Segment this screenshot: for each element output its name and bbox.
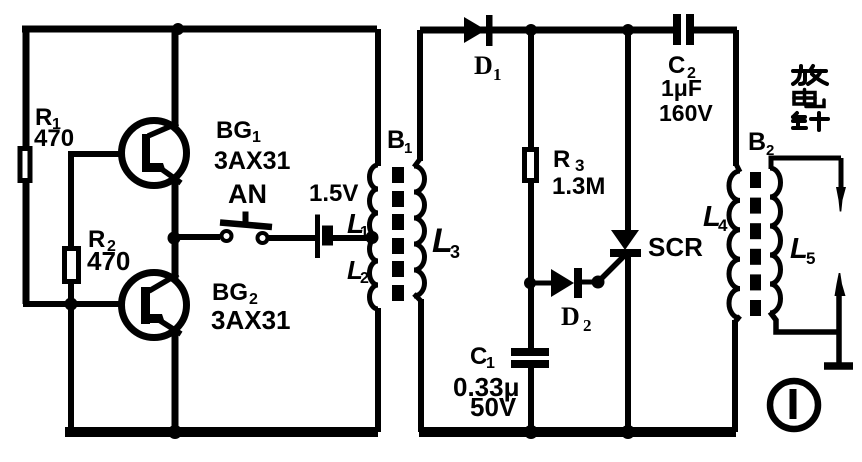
- svg-text:3AX31: 3AX31: [211, 305, 291, 335]
- svg-text:B: B: [387, 126, 405, 154]
- svg-text:D: D: [561, 302, 580, 331]
- svg-text:2: 2: [583, 316, 592, 335]
- svg-text:1: 1: [493, 65, 502, 84]
- svg-text:B: B: [748, 128, 766, 156]
- svg-text:2: 2: [766, 142, 774, 159]
- svg-text:1.3M: 1.3M: [552, 173, 605, 200]
- svg-text:3: 3: [450, 242, 460, 262]
- svg-text:SCR: SCR: [648, 232, 703, 262]
- svg-text:1: 1: [360, 224, 369, 241]
- svg-text:1: 1: [486, 355, 495, 372]
- svg-text:470: 470: [34, 125, 74, 152]
- svg-text:R: R: [553, 146, 570, 173]
- svg-text:3AX31: 3AX31: [214, 147, 291, 175]
- svg-text:50V: 50V: [470, 392, 517, 422]
- svg-text:160V: 160V: [659, 100, 713, 126]
- svg-text:AN: AN: [228, 179, 267, 209]
- svg-text:1: 1: [252, 129, 261, 146]
- svg-text:D: D: [474, 51, 493, 80]
- svg-text:C: C: [470, 343, 487, 370]
- svg-text:4: 4: [718, 216, 728, 235]
- svg-text:1μF: 1μF: [661, 75, 702, 101]
- svg-text:1.5V: 1.5V: [309, 180, 358, 207]
- svg-text:BG: BG: [212, 279, 248, 306]
- svg-text:470: 470: [87, 246, 130, 276]
- svg-text:1: 1: [404, 140, 412, 157]
- svg-text:BG: BG: [216, 117, 252, 144]
- svg-text:5: 5: [806, 249, 815, 268]
- svg-text:2: 2: [360, 270, 369, 287]
